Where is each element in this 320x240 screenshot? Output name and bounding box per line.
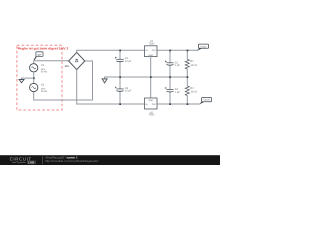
svg-text:100 Ω: 100 Ω — [190, 91, 197, 94]
svg-text:OUT: OUT — [152, 103, 157, 106]
resistor R2 — [185, 86, 190, 96]
capacitor C3 — [115, 87, 124, 92]
node dots top rail — [119, 50, 188, 52]
watermark bar — [0, 155, 220, 165]
wire ground mid rail — [105, 77, 188, 79]
regulator U1 — [145, 46, 158, 57]
wire V1 bottom to V2 top — [33, 72, 35, 84]
label C1 10uF — [125, 57, 132, 63]
watermark separator — [42, 156, 44, 164]
svg-text:1 µF: 1 µF — [175, 64, 181, 67]
circuitlab logo — [10, 156, 36, 164]
svg-text:V1: V1 — [41, 64, 45, 67]
wire V2 bottom to bridge right — [34, 61, 93, 100]
label C2 1uF — [175, 61, 181, 67]
svg-text:50 Hz: 50 Hz — [41, 70, 48, 73]
svg-text:BR1: BR1 — [65, 65, 70, 68]
node dots bottom rail — [119, 103, 188, 105]
bridge rectifier BR1 — [69, 52, 85, 69]
wire U2 out rail — [157, 103, 200, 105]
regulator U2 — [145, 98, 158, 109]
label U2 7912 — [149, 111, 155, 116]
ground left — [19, 80, 24, 83]
svg-text:78X2: 78X2 — [149, 43, 155, 46]
svg-text:http://circuitlab.com/circuit/: http://circuitlab.com/circuit/ba264mg2ee… — [45, 159, 98, 163]
voltage source V1 — [30, 64, 38, 72]
svg-text:GND: GND — [148, 54, 153, 57]
capacitor C1 — [115, 57, 124, 62]
ground mid — [102, 79, 107, 83]
svg-text:OUT: OUT — [152, 49, 157, 52]
wire bridge top to positive rail — [77, 50, 145, 52]
wire R1 column — [186, 50, 188, 104]
svg-text:Regler ist gut beim digest 1mV: Regler ist gut beim digest 1mV 2 — [18, 47, 69, 51]
svg-text:LAB: LAB — [28, 161, 35, 165]
wire U1 GND to mid rail and U2 GND — [150, 57, 152, 98]
wire C1 column — [119, 50, 121, 104]
capacitor C2 — [165, 60, 174, 65]
annotation red dashed box — [17, 45, 62, 110]
svg-text:50 Hz: 50 Hz — [41, 90, 48, 93]
wire bridge bottom to negative rail — [77, 70, 145, 104]
resistor R1 — [185, 59, 190, 69]
label V1 sine 50 Hz — [41, 64, 48, 74]
node dot center tap — [33, 77, 35, 79]
flag Vout2 — [199, 98, 211, 105]
label R1 100 Ohm — [190, 60, 197, 67]
svg-text:Vout2: Vout2 — [203, 99, 210, 102]
wire C2 column — [169, 50, 171, 104]
voltage source V2 — [30, 83, 38, 91]
svg-text:Vout1: Vout1 — [200, 45, 207, 48]
wire U1 out rail — [157, 49, 198, 51]
svg-text:10 µF: 10 µF — [125, 89, 132, 92]
note icon — [34, 52, 43, 61]
flag Vout1 — [197, 44, 209, 51]
wire center tap to ground — [22, 78, 34, 79]
label U1 7812 — [149, 40, 155, 46]
label C3 10uF — [125, 87, 132, 93]
svg-text:79X2: 79X2 — [149, 114, 155, 117]
label R2 100 Ohm — [190, 87, 197, 94]
capacitor C4 — [165, 87, 174, 92]
wire V1 top to bridge left — [34, 61, 69, 64]
svg-text:1 µF: 1 µF — [175, 91, 181, 94]
label C4 1uF — [175, 88, 181, 94]
svg-text:100 Ω: 100 Ω — [190, 64, 197, 67]
label V2 sine 50 Hz — [41, 84, 48, 93]
svg-text:10 µF: 10 µF — [125, 60, 132, 63]
svg-text:GND: GND — [148, 99, 153, 102]
node dots mid rail — [119, 76, 188, 78]
svg-text:V2: V2 — [41, 84, 45, 87]
